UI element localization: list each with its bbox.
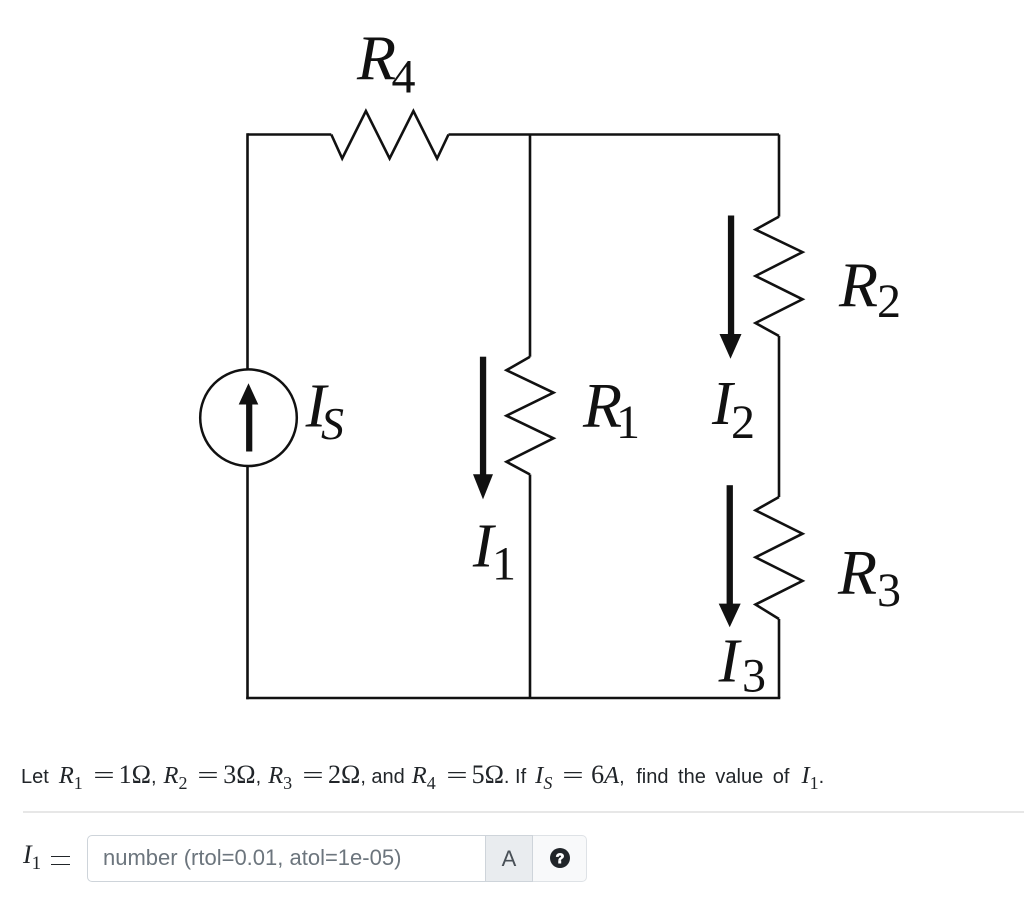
wire: left branch upper segment (246, 133, 249, 369)
svg-text:R: R (837, 537, 877, 608)
resistor R1 zigzag (507, 357, 554, 475)
current arrow I2 (720, 216, 742, 359)
help question icon (550, 848, 570, 868)
wire: top horizontal from R4 to right branch (449, 133, 780, 136)
current arrow I3 (719, 485, 741, 627)
placeholder text (103, 845, 401, 871)
help button (533, 835, 587, 882)
svg-text:1: 1 (492, 538, 516, 591)
svg-text:2: 2 (877, 275, 901, 328)
svg-text:?: ? (556, 850, 565, 866)
question text (21, 763, 824, 795)
wire: bottom horizontal (246, 697, 780, 700)
horizontal rule (23, 811, 1024, 813)
resistor R2 zigzag (756, 217, 803, 336)
answer input group (86, 835, 88, 882)
current source IS arrow (239, 383, 259, 451)
svg-text:3: 3 (877, 564, 901, 617)
resistor R3 zigzag (756, 497, 803, 619)
answer label I1 = (23, 841, 41, 878)
number input field (87, 835, 486, 882)
svg-text:R: R (356, 23, 396, 94)
wire: middle branch upper segment (529, 135, 532, 357)
equals sign of answer label (51, 856, 70, 865)
wire: right branch top segment (778, 135, 781, 217)
wire: middle branch lower segment (529, 475, 532, 699)
wire: right branch middle segment between R2 and R3 (778, 336, 781, 497)
current source IS circle (200, 369, 297, 466)
wire: left branch lower segment (246, 466, 249, 699)
resistor R4 zigzag (331, 111, 448, 159)
current arrow I1 (473, 357, 493, 500)
wire: right branch bottom segment (778, 619, 781, 698)
svg-text:1: 1 (616, 396, 640, 449)
A unit addon (486, 835, 533, 882)
svg-text:3: 3 (742, 650, 766, 703)
wire: top-left horizontal from source branch to R4 (248, 133, 332, 136)
svg-text:R: R (838, 249, 878, 320)
svg-text:I: I (718, 628, 743, 696)
svg-text:S: S (321, 398, 344, 449)
svg-text:2: 2 (731, 396, 755, 449)
svg-text:4: 4 (392, 51, 416, 104)
